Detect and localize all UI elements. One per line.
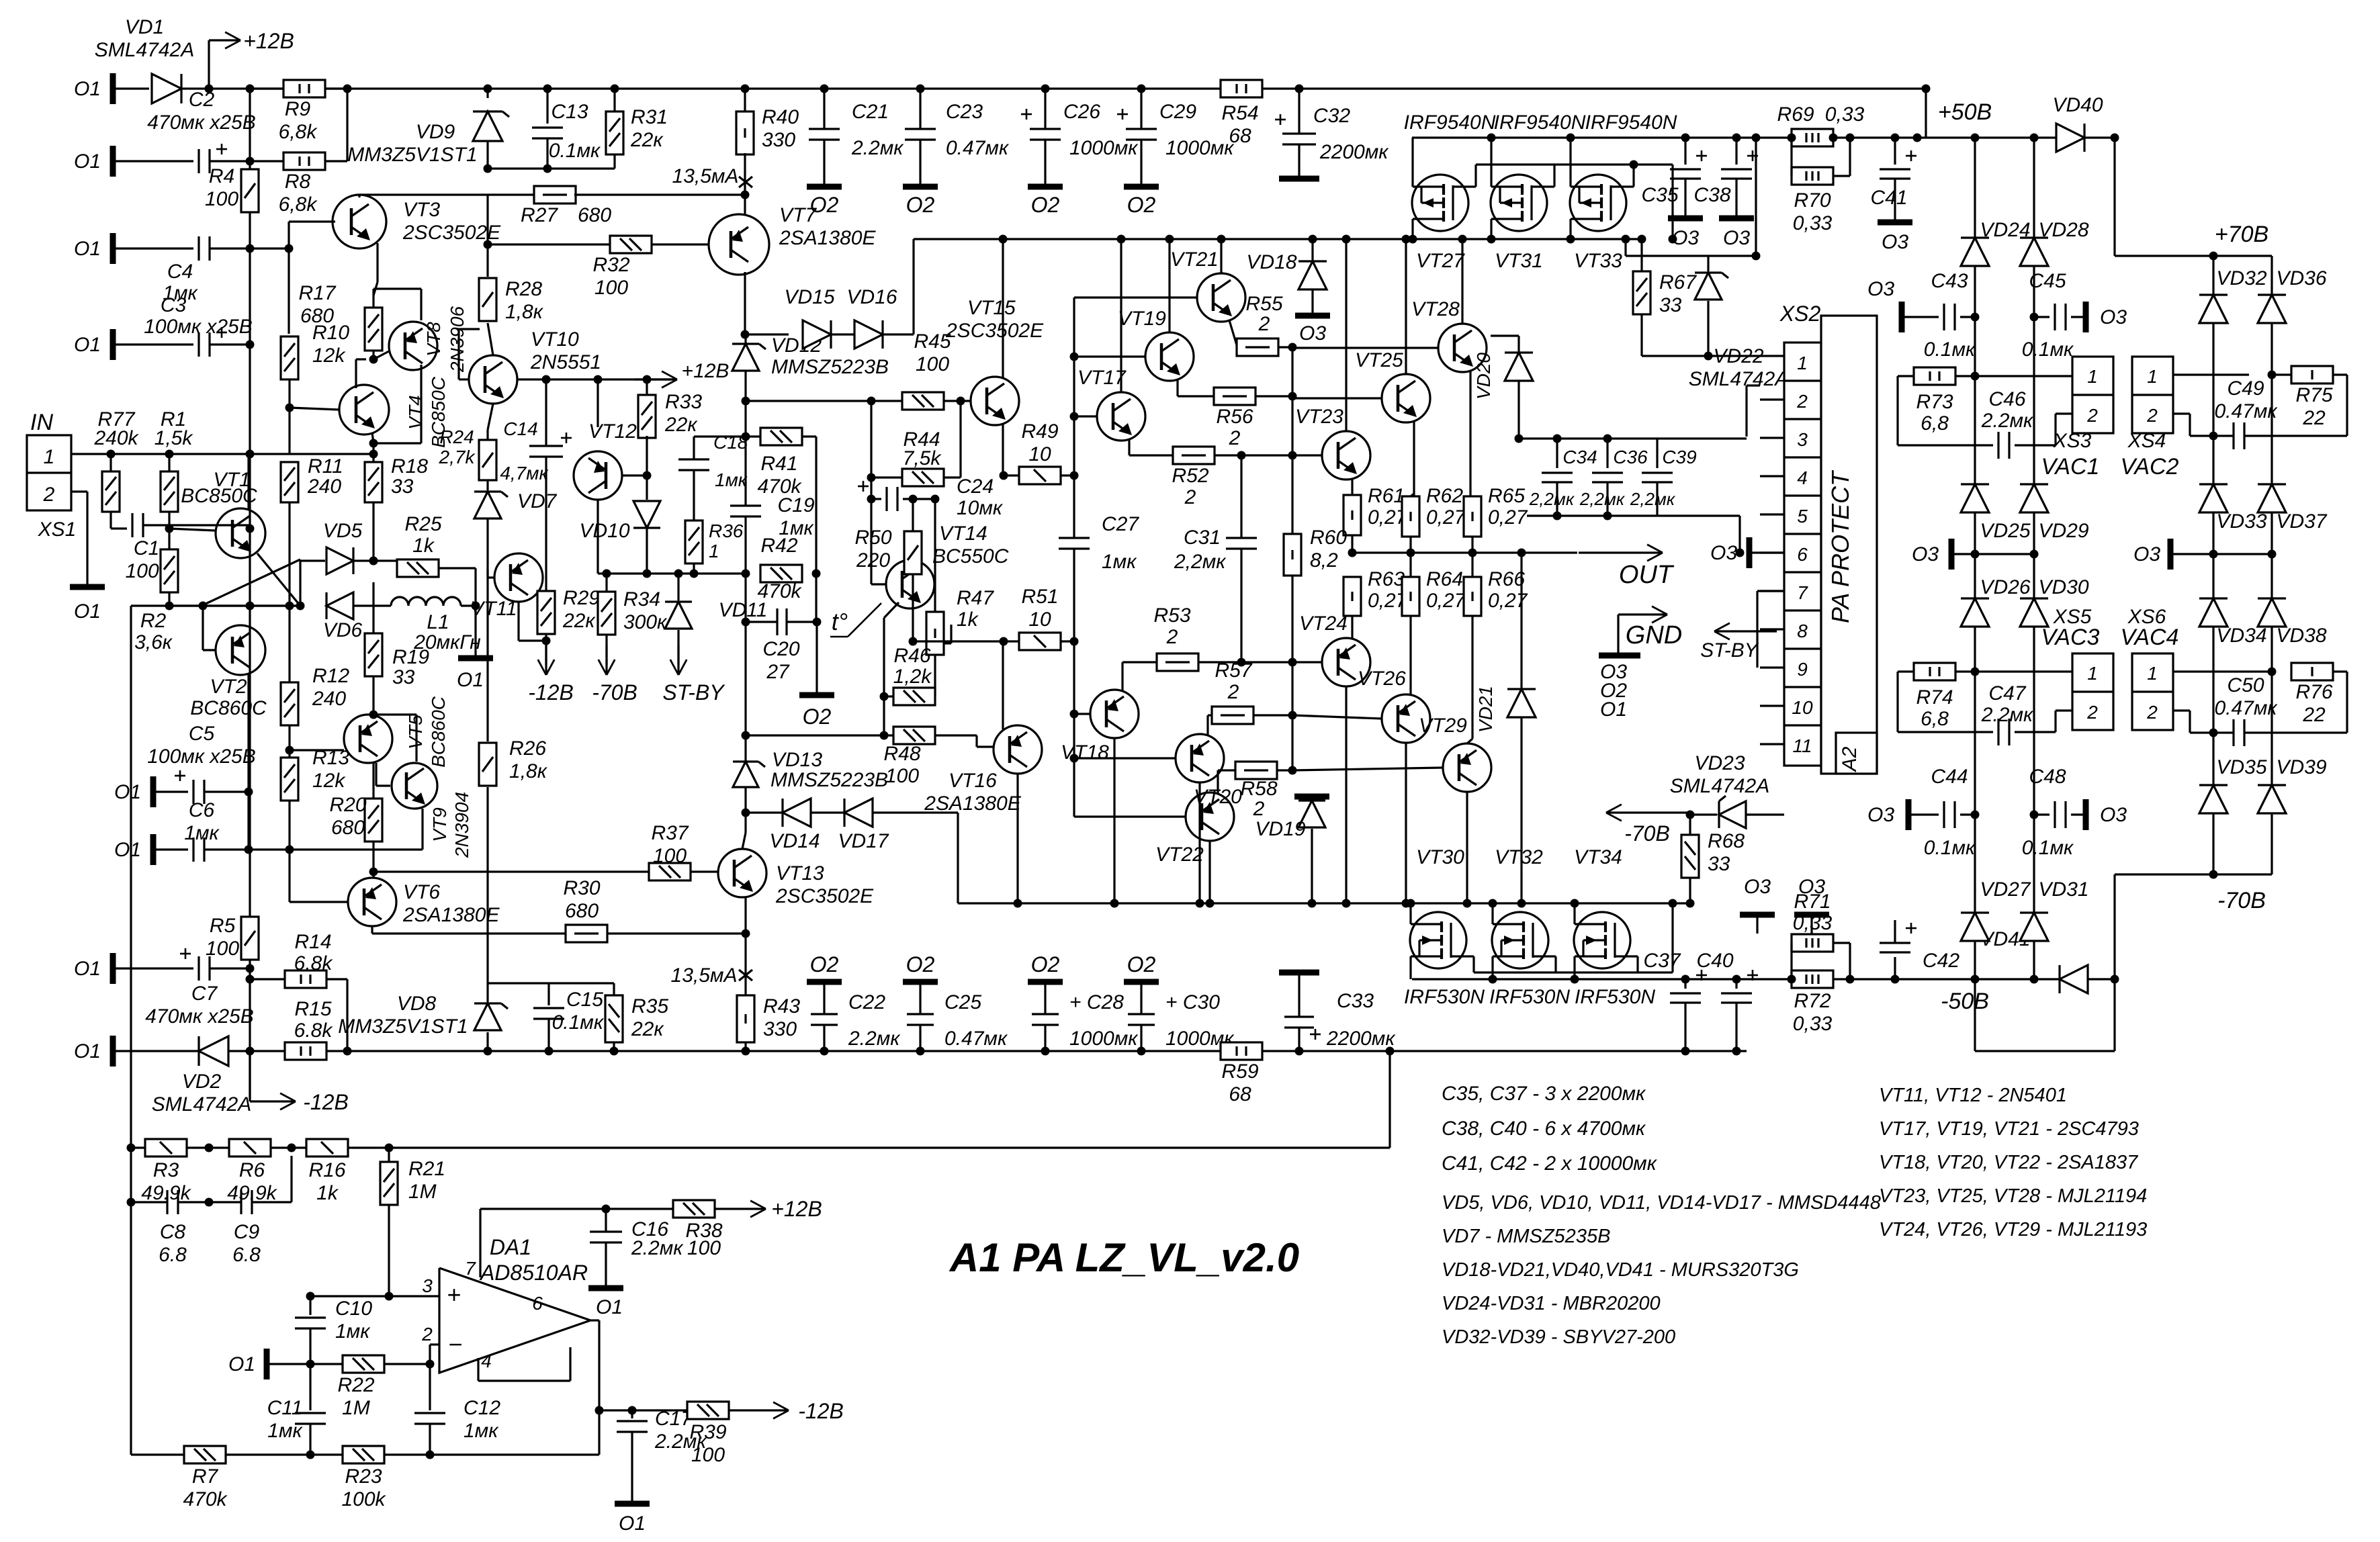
svg-text:470k: 470k: [183, 1488, 228, 1510]
capacitor C37: [1681, 975, 1690, 984]
connector XS2: [1784, 343, 1821, 766]
wire pin7 stby: [1757, 590, 1784, 592]
svg-text:XS4: XS4: [2127, 430, 2166, 452]
node R45 mid: [867, 397, 876, 406]
svg-text:100: 100: [691, 1444, 725, 1466]
svg-text:10мк: 10мк: [957, 497, 1004, 519]
svg-text:C10: C10: [335, 1298, 372, 1320]
wire input node row: [131, 604, 300, 606]
svg-text:2.2мк: 2.2мк: [1981, 704, 2034, 726]
wire XS2 pin2 stub: [1760, 398, 1784, 400]
node R45 row L: [742, 397, 750, 406]
svg-text:R47: R47: [957, 587, 994, 609]
resistor R49: [1019, 467, 1061, 484]
svg-text:O1: O1: [114, 839, 141, 861]
wire zener row: [488, 167, 615, 169]
svg-text:22к: 22к: [630, 129, 664, 151]
wire col1924: [1291, 347, 1293, 534]
svg-text:1: 1: [2147, 366, 2158, 387]
wire VT2 base: [202, 606, 204, 650]
svg-text:VD15: VD15: [784, 286, 834, 308]
svg-text:VT11, VT12 - 2N5401: VT11, VT12 - 2N5401: [1879, 1085, 2067, 1106]
terminal O3 mid2: [2168, 539, 2174, 570]
resistor R32: [610, 236, 652, 253]
svg-text:-70В: -70В: [592, 680, 637, 705]
zener VD9: [473, 111, 502, 141]
capacitor C33: [1298, 1028, 1300, 1051]
wire +12V arrow: [208, 40, 210, 89]
svg-text:VT24, VT26, VT29 - MJL21193: VT24, VT26, VT29 - MJL21193: [1879, 1219, 2147, 1240]
wire +12V arrow mid: [488, 404, 493, 430]
svg-text:VT8: VT8: [423, 322, 444, 357]
resistor R71: [1792, 934, 1833, 952]
svg-text:C41, C42 - 2 x 10000мк: C41, C42 - 2 x 10000мк: [1442, 1152, 1658, 1175]
svg-text:C36: C36: [1613, 447, 1648, 467]
svg-text:R74: R74: [1916, 686, 1953, 709]
svg-text:C38: C38: [1693, 184, 1730, 206]
ground O2 C20: [799, 692, 834, 698]
svg-text:VT21: VT21: [1170, 248, 1219, 271]
wire ST-BY arrow: [1714, 630, 1777, 632]
transistor VT25: [1382, 374, 1430, 422]
svg-text:0,33: 0,33: [1793, 1013, 1833, 1035]
svg-text:1000мк: 1000мк: [1165, 137, 1235, 159]
wire R11 bot: [288, 502, 290, 606]
node R11 902: [285, 602, 294, 610]
capacitor C48: [2030, 811, 2039, 819]
svg-text:1: 1: [44, 446, 55, 468]
node R32 left: [484, 240, 492, 249]
diode VD6: [326, 592, 353, 619]
svg-text:C27: C27: [1102, 513, 1139, 535]
svg-text:2SA1380E: 2SA1380E: [924, 792, 1021, 815]
wire -70V arrow: [1606, 811, 1690, 813]
wire VD28 col: [2033, 138, 2035, 979]
svg-text:MM3Z5V1ST1: MM3Z5V1ST1: [347, 144, 477, 166]
node C11b: [306, 1451, 315, 1459]
wire VT1 collector: [247, 454, 249, 510]
svg-text:-12В: -12В: [798, 1399, 844, 1423]
wire VT19 col: [1168, 239, 1170, 332]
svg-text:R27: R27: [521, 204, 558, 226]
svg-text:VD5, VD6, VD10, VD11, VD14-VD1: VD5, VD6, VD10, VD11, VD14-VD17 - MMSD44…: [1442, 1192, 1881, 1214]
svg-text:O1: O1: [228, 1353, 255, 1375]
transistor VT11: [494, 553, 543, 602]
svg-text:R35: R35: [631, 995, 668, 1017]
wire VT3 base: [288, 222, 290, 248]
svg-text:R60: R60: [1310, 527, 1347, 549]
node C8R: [205, 1198, 214, 1207]
svg-text:3: 3: [1797, 429, 1808, 450]
svg-text:2.2мк: 2.2мк: [631, 1237, 684, 1259]
diode VD32: [2199, 295, 2228, 323]
wire VT4 emitter: [372, 433, 373, 443]
node VD14 row: [742, 809, 750, 817]
node out col: [595, 1406, 604, 1415]
svg-text:VT6: VT6: [403, 881, 440, 903]
capacitor C27: [1073, 475, 1075, 538]
wire -70V feed vertical: [2113, 874, 2115, 979]
svg-text:VT30: VT30: [1416, 846, 1464, 868]
node R18 top: [369, 450, 378, 459]
resistor R14: [250, 978, 285, 980]
svg-text:2: 2: [2086, 405, 2098, 426]
svg-text:0,27: 0,27: [1426, 590, 1466, 612]
svg-text:2: 2: [1253, 798, 1265, 820]
svg-text:2: 2: [1796, 391, 1808, 412]
svg-text:1мк: 1мк: [715, 469, 748, 490]
svg-text:C29: C29: [1159, 101, 1196, 123]
wire XS2 pin6 stub: [1760, 551, 1784, 553]
resistor R8: [250, 160, 283, 162]
svg-text:VAC3: VAC3: [2041, 625, 2100, 650]
mosfet VT33: [1570, 175, 1626, 231]
svg-text:9: 9: [1797, 659, 1808, 680]
svg-text:R36: R36: [709, 520, 744, 541]
capacitor C12: [429, 1364, 431, 1410]
zener VD12: [744, 334, 746, 344]
svg-text:R20: R20: [329, 794, 366, 816]
wire C34 row top: [1519, 437, 1747, 439]
svg-text:R66: R66: [1488, 568, 1525, 590]
svg-text:VT12: VT12: [588, 420, 637, 443]
svg-text:VT34: VT34: [1574, 846, 1622, 868]
svg-text:+ C28: + C28: [1069, 991, 1124, 1013]
wire VT18 coll: [1113, 738, 1115, 903]
svg-text:0.1мк: 0.1мк: [2022, 837, 2074, 859]
svg-text:2,2мк: 2,2мк: [1174, 551, 1227, 573]
svg-text:R11: R11: [308, 455, 343, 478]
svg-text:AD8510AR: AD8510AR: [479, 1261, 588, 1285]
svg-text:VD13: VD13: [772, 749, 822, 771]
resistor R72: [1792, 970, 1833, 988]
node R49 row: [1000, 471, 1008, 480]
resistor R54: [1221, 80, 1262, 97]
svg-text:R30: R30: [563, 877, 600, 899]
svg-text:O2: O2: [1031, 193, 1060, 217]
svg-text:L1: L1: [427, 611, 449, 633]
svg-text:VD31: VD31: [2038, 878, 2088, 901]
node R48 row: [742, 731, 750, 740]
node VD5R: [369, 557, 378, 565]
capacitor C17: [631, 1410, 633, 1418]
wire -50V rail: [1412, 978, 2115, 980]
node VT13 e: [742, 929, 750, 938]
wire VT3 collector: [358, 195, 360, 197]
node R9R8: [343, 85, 352, 93]
svg-text:2N5551: 2N5551: [530, 351, 601, 373]
wire row1464: [488, 982, 614, 984]
node VD8 bot: [484, 1047, 492, 1056]
wire left feedback vertical: [130, 606, 132, 1455]
node trunk 782: [246, 525, 255, 533]
svg-text:6,8k: 6,8k: [279, 193, 318, 216]
diode VD11: [677, 574, 679, 600]
node R59R: [1295, 1047, 1304, 1056]
wire VT23 base: [1292, 454, 1322, 456]
node C8 row: [127, 1198, 136, 1207]
svg-text:VD26: VD26: [1980, 576, 2030, 598]
wire +50V rail: [1412, 136, 2115, 138]
svg-text:240: 240: [312, 688, 346, 710]
svg-text:33: 33: [1708, 853, 1730, 875]
svg-text:VT24: VT24: [1299, 613, 1348, 635]
node C16 top: [602, 1205, 611, 1214]
transistor VT3: [333, 195, 386, 248]
wire VT18 base: [1074, 713, 1090, 715]
terminal O1 C4: [110, 233, 116, 264]
transistor VT29: [1443, 743, 1491, 792]
svg-text:R48: R48: [883, 743, 920, 765]
wire XS3 pin2: [2056, 412, 2072, 414]
resistor R35: [605, 995, 623, 1042]
wire VT24 emit: [1345, 686, 1347, 903]
svg-text:0.47мк: 0.47мк: [2214, 400, 2278, 422]
svg-text:1M: 1M: [342, 1397, 370, 1419]
svg-text:C38, C40 - 6 x 4700мк: C38, C40 - 6 x 4700мк: [1442, 1118, 1646, 1140]
svg-text:0.47мк: 0.47мк: [946, 137, 1010, 159]
svg-text:8: 8: [1797, 621, 1808, 641]
svg-text:1мк: 1мк: [464, 1420, 499, 1442]
transistor VT10: [469, 355, 517, 404]
diode VD27: [1961, 913, 1989, 941]
svg-text:R34: R34: [623, 588, 660, 610]
svg-text:300к: 300к: [623, 611, 668, 633]
svg-text:R63: R63: [1368, 568, 1405, 590]
svg-text:R5: R5: [210, 915, 236, 937]
svg-text:VAC4: VAC4: [2121, 625, 2179, 650]
svg-text:R23: R23: [345, 1465, 382, 1488]
svg-text:O3: O3: [1912, 543, 1939, 565]
node R2 bot: [165, 602, 174, 610]
node R57R: [1288, 711, 1297, 720]
wire C1 row: [111, 527, 127, 529]
svg-text:33: 33: [392, 666, 415, 688]
transistor VT26: [1382, 694, 1430, 743]
resistor R2: [161, 549, 178, 592]
svg-text:100: 100: [687, 1237, 721, 1259]
svg-text:VD7: VD7: [517, 490, 558, 512]
svg-text:2: 2: [1227, 681, 1239, 703]
svg-text:4: 4: [481, 1351, 492, 1371]
transistor VT22: [1186, 792, 1234, 841]
svg-text:XS3: XS3: [2053, 430, 2092, 452]
svg-text:VD33: VD33: [2216, 510, 2266, 533]
svg-text:R65: R65: [1488, 485, 1525, 507]
svg-text:1,2k: 1,2k: [893, 666, 933, 688]
capacitor C38: [1732, 134, 1741, 142]
svg-text:R32: R32: [592, 254, 629, 276]
transistor VT14: [886, 560, 934, 608]
diode VD41: [2060, 965, 2088, 993]
svg-text:330: 330: [762, 129, 795, 151]
node VD40R: [2111, 134, 2119, 142]
svg-text:R67: R67: [1659, 271, 1697, 293]
terminal O3 C43: [1899, 302, 1905, 332]
mosfet VT27: [1412, 175, 1468, 231]
capacitor C16: [605, 1209, 607, 1232]
svg-text:SML4742A: SML4742A: [1670, 775, 1769, 797]
node R12 bot: [285, 746, 294, 755]
wire R40 down: [744, 153, 746, 214]
svg-text:0.1мк: 0.1мк: [552, 1011, 605, 1034]
wire VT28 coll: [1461, 239, 1463, 324]
resistor R25: [397, 559, 439, 577]
wire VT16 coll: [1016, 774, 1018, 903]
wire opamp bottom row: [131, 1453, 599, 1455]
svg-text:VD37: VD37: [2276, 510, 2327, 533]
svg-text:6,8k: 6,8k: [279, 121, 318, 143]
svg-text:2: 2: [2086, 702, 2098, 723]
svg-text:330: 330: [763, 1018, 797, 1040]
svg-text:-12В: -12В: [528, 680, 574, 705]
svg-text:R61: R61: [1368, 485, 1405, 507]
wire VT17 base: [1074, 415, 1097, 417]
svg-text:+ C30: + C30: [1165, 991, 1220, 1013]
svg-text:C19: C19: [777, 494, 814, 516]
svg-text:C34: C34: [1562, 447, 1597, 467]
svg-text:C39: C39: [1662, 447, 1696, 467]
svg-text:R16: R16: [308, 1159, 345, 1181]
svg-text:2SA1380E: 2SA1380E: [402, 904, 500, 926]
transistor VT9: [392, 763, 437, 809]
svg-text:VAC1: VAC1: [2041, 454, 2100, 480]
wire XS4 pin2: [2173, 412, 2190, 414]
svg-text:XS1: XS1: [38, 518, 77, 541]
wire XS4 pin1: [2173, 373, 2249, 375]
transistor VT12: [574, 451, 622, 500]
capacitor C35: [1681, 134, 1690, 142]
node R40 R27: [741, 191, 750, 199]
svg-text:R10: R10: [312, 322, 349, 344]
svg-text:240k: 240k: [93, 427, 139, 449]
wire VT23 col: [1345, 239, 1347, 431]
wire VT5 base: [290, 749, 344, 751]
resistor R3: [145, 1139, 187, 1156]
svg-text:12k: 12k: [312, 770, 346, 792]
svg-text:O1: O1: [74, 334, 101, 356]
svg-text:C45: C45: [2029, 270, 2066, 292]
node R14L: [246, 975, 255, 984]
svg-text:OUT: OUT: [1619, 561, 1675, 589]
svg-text:1k: 1k: [316, 1182, 339, 1204]
wire XS2 pin7 stub: [1760, 590, 1784, 592]
capacitor C39: [1656, 439, 1658, 468]
wire C14 col2: [545, 457, 547, 591]
svg-text:2.2мк: 2.2мк: [851, 137, 904, 159]
capacitor C1: [131, 513, 133, 537]
svg-text:C46: C46: [1988, 388, 2025, 410]
svg-text:R19: R19: [392, 646, 429, 668]
resistor R23: [343, 1446, 384, 1463]
capacitor C41: [1894, 138, 1896, 165]
svg-text:11: 11: [1792, 735, 1812, 756]
connector XS4: [2132, 357, 2173, 433]
svg-text:1,8к: 1,8к: [509, 760, 548, 782]
wire XS2 pin11 stub: [1760, 743, 1784, 745]
resistor R50: [904, 531, 922, 574]
diode VD10: [633, 501, 660, 528]
svg-text:7: 7: [1797, 582, 1808, 603]
wire -12V drop: [249, 1051, 251, 1101]
capacitor C2: [197, 149, 200, 173]
svg-text:2.2мк: 2.2мк: [848, 1028, 901, 1050]
svg-text:VD38: VD38: [2276, 625, 2326, 647]
wire VT25 base: [1292, 397, 1382, 399]
svg-text:2N3906: 2N3906: [447, 306, 468, 373]
diode VD26: [1961, 598, 1989, 627]
svg-text:IN: IN: [30, 410, 53, 435]
resistor R34: [605, 574, 607, 592]
node VD40L: [1913, 134, 1922, 142]
wire R3 feedback row: [131, 1146, 1390, 1148]
svg-text:VT14: VT14: [939, 523, 987, 545]
resistor R22: [343, 1355, 384, 1373]
svg-text:VT26: VT26: [1358, 668, 1406, 690]
capacitor C24: [871, 498, 881, 500]
diode VD1: [152, 74, 181, 103]
wire pin3: [310, 1295, 439, 1297]
svg-text:C35, C37 - 3 x 2200мк: C35, C37 - 3 x 2200мк: [1442, 1083, 1646, 1105]
wire VT22 base: [1074, 815, 1186, 817]
svg-text:VD8: VD8: [397, 993, 437, 1015]
svg-text:O2: O2: [1031, 952, 1060, 977]
svg-text:R29: R29: [563, 587, 600, 609]
terminal O1 C7: [110, 953, 116, 984]
wire VD15 row: [745, 333, 789, 335]
mosfet VT32: [1492, 912, 1548, 968]
ground O1 L1: [458, 655, 493, 662]
wire col1297: [870, 401, 872, 584]
resistor R62: [1402, 496, 1419, 537]
wire -70V rail: [2115, 873, 2272, 875]
svg-text:VD25: VD25: [1980, 520, 2030, 542]
wire VT17 col: [1120, 239, 1122, 392]
svg-text:ST-BY: ST-BY: [1700, 639, 1759, 662]
diode VD37: [2258, 484, 2286, 512]
svg-text:C9: C9: [234, 1221, 260, 1243]
diode VD40: [2056, 124, 2084, 152]
wire R28 col: [486, 244, 488, 277]
svg-text:0.47мк: 0.47мк: [2214, 697, 2278, 719]
svg-text:O1: O1: [1600, 698, 1627, 721]
wire VT17 emit: [1128, 439, 1130, 455]
wire pin2: [429, 1345, 431, 1364]
resistor R75: [2291, 366, 2333, 383]
svg-text:680: 680: [565, 900, 599, 922]
svg-text:100: 100: [885, 765, 919, 787]
svg-text:VD5: VD5: [323, 520, 363, 542]
node C13 bot: [543, 165, 552, 173]
wire R10 col: [288, 248, 290, 334]
transistor VT24: [1322, 638, 1370, 686]
wire FET tops: [1411, 138, 1413, 187]
svg-text:R40: R40: [762, 106, 799, 128]
svg-text:VD18: VD18: [1246, 251, 1296, 273]
svg-text:R52: R52: [1172, 465, 1208, 487]
svg-text:R6: R6: [239, 1159, 265, 1181]
svg-text:R33: R33: [665, 391, 702, 413]
wire VT28 emit: [1469, 371, 1471, 496]
svg-text:VD17: VD17: [838, 830, 889, 852]
wire XS2 pin9 stub: [1760, 666, 1784, 668]
svg-text:R22: R22: [337, 1374, 374, 1396]
svg-text:BC860C: BC860C: [428, 696, 449, 768]
svg-text:C32: C32: [1313, 105, 1350, 127]
capacitor C3: [197, 332, 200, 357]
svg-text:VD28: VD28: [2038, 219, 2088, 241]
svg-text:R41: R41: [760, 453, 797, 475]
